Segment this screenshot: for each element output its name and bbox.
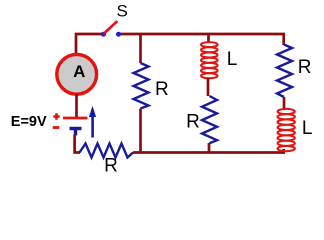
wire branch-1 top stub (139, 34, 142, 63)
resistor R right branch (vertical) (277, 45, 292, 98)
switch S contact dot left (101, 32, 106, 37)
switch S lever (open blade) (105, 22, 117, 33)
current arrow (blue, pointing up) (89, 106, 96, 138)
svg-text:L: L (227, 49, 238, 70)
battery long positive plate (63, 117, 88, 120)
label L (right branch) (302, 118, 313, 139)
wire bottom (resistor to bottom-right corner) (133, 149, 284, 153)
inductor L branch-2 (coil) (201, 42, 218, 78)
label R (branch-1) (155, 79, 169, 100)
resistor R branch-1 (vertical) (134, 63, 149, 109)
wire branch-1 bottom stub (139, 109, 142, 153)
label R (right branch) (298, 57, 312, 78)
resistor R branch-2 (vertical) (202, 96, 217, 143)
svg-text:A: A (73, 62, 85, 81)
svg-text:S: S (117, 2, 128, 21)
wire ammeter to battery positive plate (75, 94, 78, 117)
wire branch-2 bottom stub (208, 143, 211, 153)
label R (bottom resistor) (104, 156, 118, 177)
inductor L right branch (coil) (278, 109, 295, 151)
wire top-right segment (switch to top-right corner, down to R) (119, 34, 284, 45)
label E=9V (11, 114, 47, 130)
svg-text:R: R (186, 112, 200, 133)
battery short negative plate (70, 129, 82, 136)
svg-text:R: R (104, 156, 118, 177)
wire top-left segment (corner above ammeter to switch contact) (76, 34, 104, 55)
label L (branch-2) (227, 49, 238, 70)
battery minus sign (53, 126, 60, 129)
label S (117, 2, 128, 21)
wire branch-2 middle stub (207, 78, 210, 96)
ammeter A (57, 54, 97, 94)
wire right branch middle stub (283, 97, 286, 110)
svg-text:L: L (302, 118, 313, 139)
wire branch-2 top stub (207, 34, 210, 43)
switch S contact dot right (116, 32, 121, 37)
svg-text:R: R (155, 79, 169, 100)
svg-text:R: R (298, 57, 312, 78)
battery plus sign (53, 113, 59, 119)
svg-text:E=9V: E=9V (11, 114, 47, 130)
resistor R horizontal (bottom left) (80, 144, 134, 158)
label R (branch-2) (186, 112, 200, 133)
wire battery negative to bottom-left corner (75, 135, 80, 153)
